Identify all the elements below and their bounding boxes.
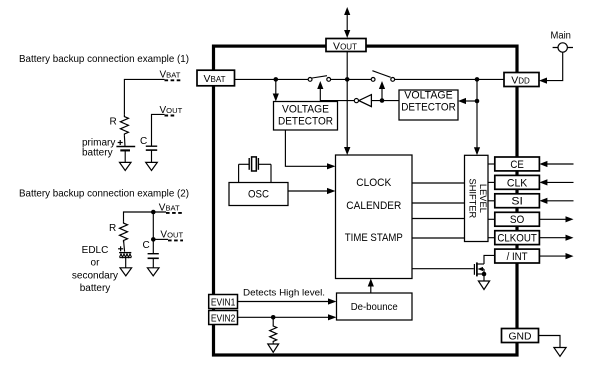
- inverter U3: [354, 95, 371, 107]
- wire OSC to clock block (arrow): [288, 188, 336, 194]
- svg-text:battery: battery: [82, 148, 113, 159]
- resistor R (example 2): [109, 221, 128, 242]
- pin SI: [495, 194, 540, 208]
- wire VOUT to C (example 1): [152, 114, 165, 146]
- svg-text:VDD: VDD: [511, 74, 530, 86]
- wire VBAT to R (example 1): [124, 79, 164, 114]
- junction (example 2, VBAT/C): [151, 210, 156, 215]
- wire CE input arrow: [539, 161, 573, 167]
- wires level shifter to pins: [488, 164, 495, 238]
- node VBAT (example 1): [160, 70, 181, 81]
- junction (example 2, VOUT tap): [151, 237, 156, 242]
- junction (VBAT bus / VD1): [274, 77, 279, 82]
- svg-text:CE: CE: [510, 159, 524, 171]
- de-bounce block: [337, 293, 413, 320]
- wire GND to external ground: [539, 336, 561, 348]
- pin VBAT: [197, 70, 235, 86]
- svg-text:DETECTOR: DETECTOR: [278, 115, 333, 127]
- wire pulldown to ground: [272, 343, 274, 344]
- wire SI input arrow: [539, 198, 573, 204]
- wire transistor source to ground: [483, 274, 485, 281]
- svg-text:Detects High level.: Detects High level.: [243, 288, 325, 299]
- pin /INT: [495, 249, 540, 263]
- junction (bus / VDD branch): [475, 77, 480, 82]
- wire Main to VDD (arrow): [539, 52, 563, 83]
- wire de-bounce to clock block (up arrow): [368, 279, 374, 294]
- connector Main: [550, 29, 573, 52]
- ground (GND pin): [554, 348, 566, 357]
- svg-text:Battery backup connection exam: Battery backup connection example (2): [19, 188, 189, 199]
- wire EDLC to ground (example 2): [125, 258, 127, 268]
- pin CLKOUT: [495, 231, 540, 245]
- wire VOUT external double arrow: [344, 7, 350, 38]
- pin EVIN2: [209, 311, 238, 325]
- voltage detector U2: [399, 90, 458, 120]
- wire VDD branch down / arrow into VD2: [458, 79, 477, 104]
- wire EVIN2 to de-bounce (arrow): [238, 314, 337, 320]
- svg-text:C: C: [140, 136, 147, 147]
- junction (EVIN2 / pulldown): [271, 315, 276, 320]
- switch SW2: [371, 71, 394, 82]
- ground (example 1 battery): [120, 162, 132, 170]
- svg-text:DETECTOR: DETECTOR: [401, 102, 456, 114]
- junction (VBAT bus / VOUT line): [345, 77, 350, 82]
- pin GND: [502, 329, 539, 343]
- wire C to ground (example 2): [152, 258, 154, 268]
- wire /INT output arrow: [539, 253, 573, 259]
- wire R to EDLC (example 2): [124, 240, 125, 252]
- wire inverter output to SW1 control line: [320, 100, 354, 102]
- svg-text:CLKOUT: CLKOUT: [497, 233, 537, 245]
- svg-text:SHIFTER: SHIFTER: [467, 179, 477, 219]
- transistor Q1 (nmos): [474, 255, 494, 276]
- node VOUT (example 1): [160, 105, 183, 116]
- junction (VDD branch / VD2 arrow): [475, 99, 480, 104]
- svg-text:Battery backup connection exam: Battery backup connection example (1): [19, 54, 189, 65]
- svg-text:EVIN1: EVIN1: [211, 298, 236, 309]
- wire VBAT junction down to C (example 2): [152, 212, 154, 254]
- svg-text:SI: SI: [511, 196, 523, 208]
- svg-text:VOUT: VOUT: [333, 40, 357, 52]
- level shifter: [465, 155, 489, 241]
- resistor R (example 1): [110, 115, 129, 136]
- wire arrow VD1 to SW1 control: [317, 81, 323, 101]
- wire VOUT tap (example 2): [153, 238, 168, 240]
- wire VOUT bus vertical (into clock block): [346, 52, 348, 148]
- wire bus junction to VD1 (down arrow): [273, 79, 279, 101]
- resistor (EVIN2 pulldown): [270, 317, 277, 343]
- wire R to battery (example 1): [123, 136, 126, 147]
- svg-text:secondary: secondary: [72, 271, 118, 282]
- ground (EVIN2 pulldown): [268, 344, 279, 352]
- wire clock block to transistor gate: [412, 268, 474, 270]
- svg-text:CLK: CLK: [507, 177, 528, 189]
- capacitor C (example 2): [143, 240, 159, 258]
- junction (inverter input / SW2 control): [380, 98, 385, 103]
- wire SO output arrow: [539, 216, 573, 222]
- oscillator OSC: [229, 183, 288, 206]
- wire EVIN1 to de-bounce (arrow): [238, 298, 337, 304]
- wire battery to ground (example 1): [124, 150, 126, 162]
- wire CLK input arrow: [539, 179, 573, 185]
- svg-text:EDLC: EDLC: [82, 245, 109, 256]
- crystal X1: [239, 157, 271, 183]
- svg-text:TIME STAMP: TIME STAMP: [345, 232, 403, 244]
- svg-text:R: R: [110, 117, 117, 128]
- IC boundary: [214, 46, 518, 355]
- pin SO: [495, 212, 540, 226]
- svg-text:GND: GND: [509, 331, 532, 343]
- svg-text:/ INT: / INT: [507, 251, 528, 263]
- svg-text:Main: Main: [550, 29, 571, 41]
- pin CE: [495, 157, 540, 171]
- svg-text:CLOCK: CLOCK: [356, 177, 391, 189]
- battery (example 1): [116, 140, 135, 150]
- wire C to ground (example 1): [151, 150, 153, 162]
- svg-text:LEVEL: LEVEL: [478, 184, 488, 213]
- wire CLKOUT output arrow: [539, 235, 573, 241]
- pin CLK: [495, 175, 540, 189]
- wires clock block to level shifter: [412, 183, 465, 238]
- svg-text:VOLTAGE: VOLTAGE: [404, 90, 453, 102]
- switch SW1: [308, 76, 330, 82]
- node VBAT (example 2): [159, 202, 183, 213]
- svg-text:CALENDER: CALENDER: [346, 200, 401, 212]
- wire VBAT bus: [235, 78, 309, 80]
- pin EVIN1: [209, 295, 238, 309]
- voltage detector U1: [274, 102, 338, 131]
- node VOUT (example 2): [160, 230, 183, 241]
- ground (example 2 EDLC): [120, 268, 132, 276]
- svg-text:R: R: [109, 223, 116, 234]
- ground (example 1 cap): [146, 162, 158, 170]
- wire VD1 to clock block (arrow): [285, 130, 335, 169]
- EDLC cell (example 2): [118, 246, 131, 257]
- svg-text:EVIN2: EVIN2: [211, 314, 236, 325]
- svg-text:C: C: [143, 240, 150, 251]
- wire arrow inverter to SW2 control: [379, 81, 385, 101]
- ground (example 2 cap): [147, 268, 159, 276]
- svg-text:OSC: OSC: [248, 189, 269, 201]
- capacitor C (example 1): [140, 136, 157, 150]
- label primary battery: [82, 137, 115, 158]
- wire VD2 output to inverter input: [371, 100, 399, 102]
- wire VDD branch to level shifter (down arrow): [474, 101, 480, 155]
- block clock/calendar/time-stamp: [336, 155, 413, 279]
- svg-text:or: or: [91, 258, 101, 269]
- wire VBAT to R (example 2): [124, 212, 167, 221]
- ground (transistor): [478, 281, 489, 290]
- svg-text:SO: SO: [510, 214, 525, 226]
- svg-text:De-bounce: De-bounce: [351, 302, 398, 313]
- svg-text:VOLTAGE: VOLTAGE: [282, 103, 329, 115]
- pin VOUT: [326, 39, 366, 53]
- svg-text:battery: battery: [80, 283, 111, 294]
- label EDLC or secondary battery: [72, 245, 118, 294]
- pin VDD: [504, 73, 539, 87]
- svg-text:VBAT: VBAT: [204, 73, 226, 85]
- junction (transistor source): [482, 272, 487, 277]
